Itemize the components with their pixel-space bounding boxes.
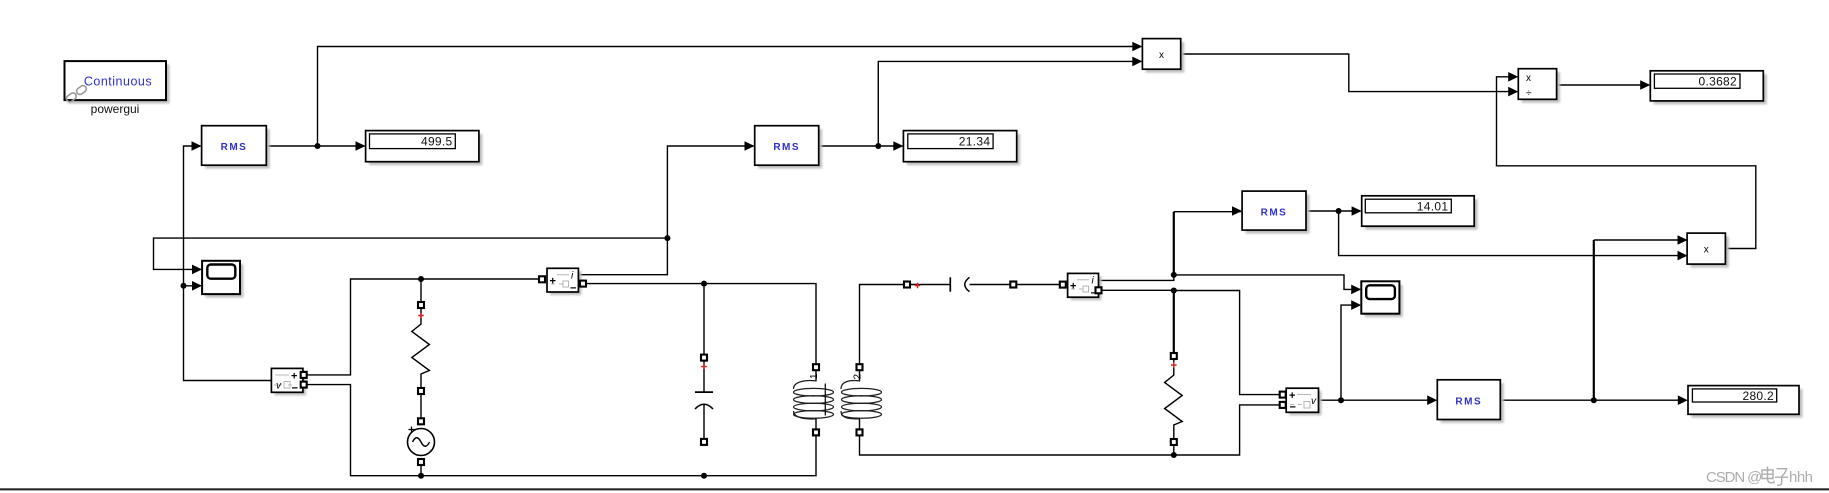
transformer primary winding 1 xyxy=(794,364,834,435)
current measurement I2 xyxy=(1060,273,1102,300)
wire R1 bottom to AC source top xyxy=(420,391,422,421)
node junction RMS1 output xyxy=(315,143,321,149)
wire AC source bottom stub xyxy=(420,462,422,476)
wire I1 current signal to RMS2 input and scope1 in1 xyxy=(154,146,754,275)
wire bottom product output loop to divide input 1 xyxy=(1497,77,1756,249)
bottom window border xyxy=(0,488,1829,490)
svg-text:+: + xyxy=(1070,281,1076,293)
powergui block Continuous xyxy=(65,61,170,116)
display Display5 value 280.2 xyxy=(1688,386,1802,418)
node junction I2 minus xyxy=(1171,288,1177,294)
wire RMS2 output to Display2 and to top product input 2 xyxy=(819,61,1141,146)
node junction i1-signal branch xyxy=(664,235,670,241)
node junction AC source on bottom rail xyxy=(418,473,424,479)
svg-text:x: x xyxy=(1704,245,1709,256)
svg-text:280.2: 280.2 xyxy=(1742,389,1774,403)
wire V2 output to RMS4 input and scope2 in2 xyxy=(1319,305,1437,400)
svg-text:+: + xyxy=(291,371,297,383)
wire V1 minus terminal down to primary bottom rail xyxy=(304,385,816,476)
wire transformer secondary top to C2 and I2 plus xyxy=(860,285,1063,368)
svg-text:14.01: 14.01 xyxy=(1417,199,1449,213)
transformer core xyxy=(824,384,826,416)
svg-text:−: − xyxy=(292,383,298,395)
node junction RMS4 output xyxy=(1591,397,1597,403)
resistor R2 load xyxy=(1165,353,1183,445)
wire divide output to Display4 xyxy=(1557,84,1649,86)
block RMS2 xyxy=(755,126,822,169)
transformer secondary winding 2 xyxy=(841,364,882,435)
svg-text:hhh: hhh xyxy=(1789,469,1813,486)
wire I1 minus to transformer primary top xyxy=(583,284,816,368)
display Display2 value 21.34 xyxy=(903,131,1020,166)
wire RMS4 output to Display5 xyxy=(1500,399,1686,401)
svg-text:RMS: RMS xyxy=(773,142,800,153)
capacitor C1 xyxy=(695,355,713,445)
scope Scope2 xyxy=(1361,281,1402,317)
wire RMS3 output to Display3 and to bottom product input 2 xyxy=(1306,211,1686,256)
svg-text:x: x xyxy=(1159,50,1164,61)
svg-text:x: x xyxy=(1526,73,1531,84)
svg-text:RMS: RMS xyxy=(221,142,248,153)
svg-text:2: 2 xyxy=(853,374,864,380)
resistor R1 source branch xyxy=(412,302,430,394)
svg-text:+: + xyxy=(1289,390,1295,402)
svg-text:powergui: powergui xyxy=(91,102,140,116)
svg-text:+: + xyxy=(550,276,556,288)
current measurement I1 xyxy=(539,268,586,295)
svg-text:−: − xyxy=(570,283,576,295)
display Display1 value 499.5 xyxy=(366,131,483,166)
block RMS1 xyxy=(202,126,270,169)
block product bottom (x) xyxy=(1687,233,1729,267)
node junction V2 output xyxy=(1338,397,1344,403)
scope Scope1 xyxy=(202,261,243,298)
svg-text:−: − xyxy=(1290,402,1296,414)
node junction R1 top on primary rail xyxy=(418,276,424,282)
svg-text:÷: ÷ xyxy=(1526,88,1532,99)
node junction i2-signal branch xyxy=(1171,272,1177,278)
block divide (x over division) xyxy=(1518,69,1560,103)
wire R1 top stub xyxy=(420,279,422,305)
voltage measurement V2 xyxy=(1280,388,1322,415)
block RMS4 xyxy=(1437,380,1503,423)
node junction C1 on bottom rail xyxy=(701,473,707,479)
watermark CSDN xyxy=(1706,467,1813,487)
svg-text:RMS: RMS xyxy=(1455,397,1482,408)
svg-text:1: 1 xyxy=(809,373,820,379)
wire I2 minus drop to load resistor top xyxy=(1173,291,1175,357)
node junction RMS2 output xyxy=(875,143,881,149)
wire RMS4 output branch up to bottom product input 1 xyxy=(1594,240,1686,400)
wire V1 plus terminal to primary top rail xyxy=(304,279,542,375)
node junction load resistor bottom rail xyxy=(1171,452,1177,458)
wire top product output to divide input 2 xyxy=(1181,54,1517,92)
wire I2 minus to load resistor and V2 plus xyxy=(1099,290,1282,394)
wire secondary bottom rail to V2 minus xyxy=(860,405,1282,455)
voltage measurement V1 xyxy=(271,368,306,395)
svg-text:21.34: 21.34 xyxy=(959,135,991,149)
svg-text:RMS: RMS xyxy=(1261,208,1288,219)
display Display4 value 0.3682 xyxy=(1650,71,1766,104)
block product top (x) xyxy=(1142,39,1184,73)
block RMS3 xyxy=(1242,191,1309,233)
svg-text:499.5: 499.5 xyxy=(421,135,453,149)
wire C1 top stub down to capacitor xyxy=(703,284,705,358)
wire RMS1 output to Display1 and to top product input 1 xyxy=(266,47,1141,147)
wire load resistor bottom stub xyxy=(1173,442,1175,455)
capacitor C2 series in secondary xyxy=(904,277,1016,291)
AC voltage source xyxy=(408,418,435,465)
node junction RMS3 output xyxy=(1336,208,1342,214)
svg-text:CSDN @: CSDN @ xyxy=(1706,469,1761,486)
node junction v-signal at scope1 in2 xyxy=(181,283,187,289)
wire i2-signal rise to RMS3 input xyxy=(1174,212,1241,276)
arrowheads into block inputs xyxy=(192,42,1688,405)
node junction C1 top on rail xyxy=(701,281,707,287)
svg-text:0.3682: 0.3682 xyxy=(1698,75,1737,89)
wire I2 current signal to RMS3 and scope2 in1 xyxy=(1099,275,1360,290)
display Display3 value 14.01 xyxy=(1362,196,1478,230)
wire V1 output to scope1 in2 and RMS1 input (voltage signal) xyxy=(184,146,272,381)
svg-text:Continuous: Continuous xyxy=(84,75,152,89)
